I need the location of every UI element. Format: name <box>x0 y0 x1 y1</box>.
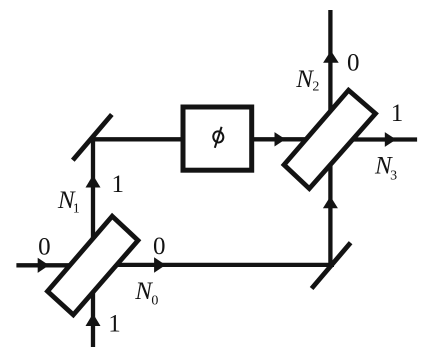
arrowhead BS2 right output <box>385 132 396 147</box>
wire: left input beam into BS1 <box>16 263 78 267</box>
beam splitter BS1 <box>48 216 139 315</box>
wire: top horizontal beam mirror M1 to phase box <box>91 137 185 141</box>
arrowhead N0 right <box>154 257 166 273</box>
arrowhead bottom input <box>86 314 101 327</box>
beam splitter BS2 <box>284 90 376 188</box>
wire: vertical beam mirror M2 up into BS2 <box>328 158 332 266</box>
svg-text:1: 1 <box>112 171 125 198</box>
wire: BS2 top output beam <box>328 10 332 120</box>
arrowhead M2 to BS2 up <box>323 196 338 208</box>
mirror M1 top-left <box>73 115 112 161</box>
phase shifter box <box>183 107 252 170</box>
wire: phase box to BS2 <box>251 137 309 141</box>
arrowhead left input <box>38 258 49 273</box>
wire: BS2 right output beam <box>350 137 417 141</box>
label phi <box>212 127 224 148</box>
wire: bottom input beam into BS1 <box>91 293 95 347</box>
arrowhead BS2 top output up <box>323 51 339 63</box>
mirror M2 bottom-right <box>312 243 351 289</box>
svg-text:1: 1 <box>73 202 80 217</box>
svg-text:0: 0 <box>151 293 158 308</box>
arrowhead into BS2 from phase box <box>275 132 286 146</box>
wire: N1 vertical beam BS1 to mirror M1 <box>91 138 95 246</box>
wire: N0 horizontal beam BS1 to mirror M2 <box>112 263 334 267</box>
svg-text:3: 3 <box>390 169 397 184</box>
svg-text:2: 2 <box>312 80 319 95</box>
svg-text:0: 0 <box>347 50 360 77</box>
svg-text:1: 1 <box>391 100 404 127</box>
svg-text:0: 0 <box>38 234 51 261</box>
svg-text:0: 0 <box>153 233 166 260</box>
svg-text:1: 1 <box>108 311 121 338</box>
arrowhead N1 up <box>86 175 101 188</box>
